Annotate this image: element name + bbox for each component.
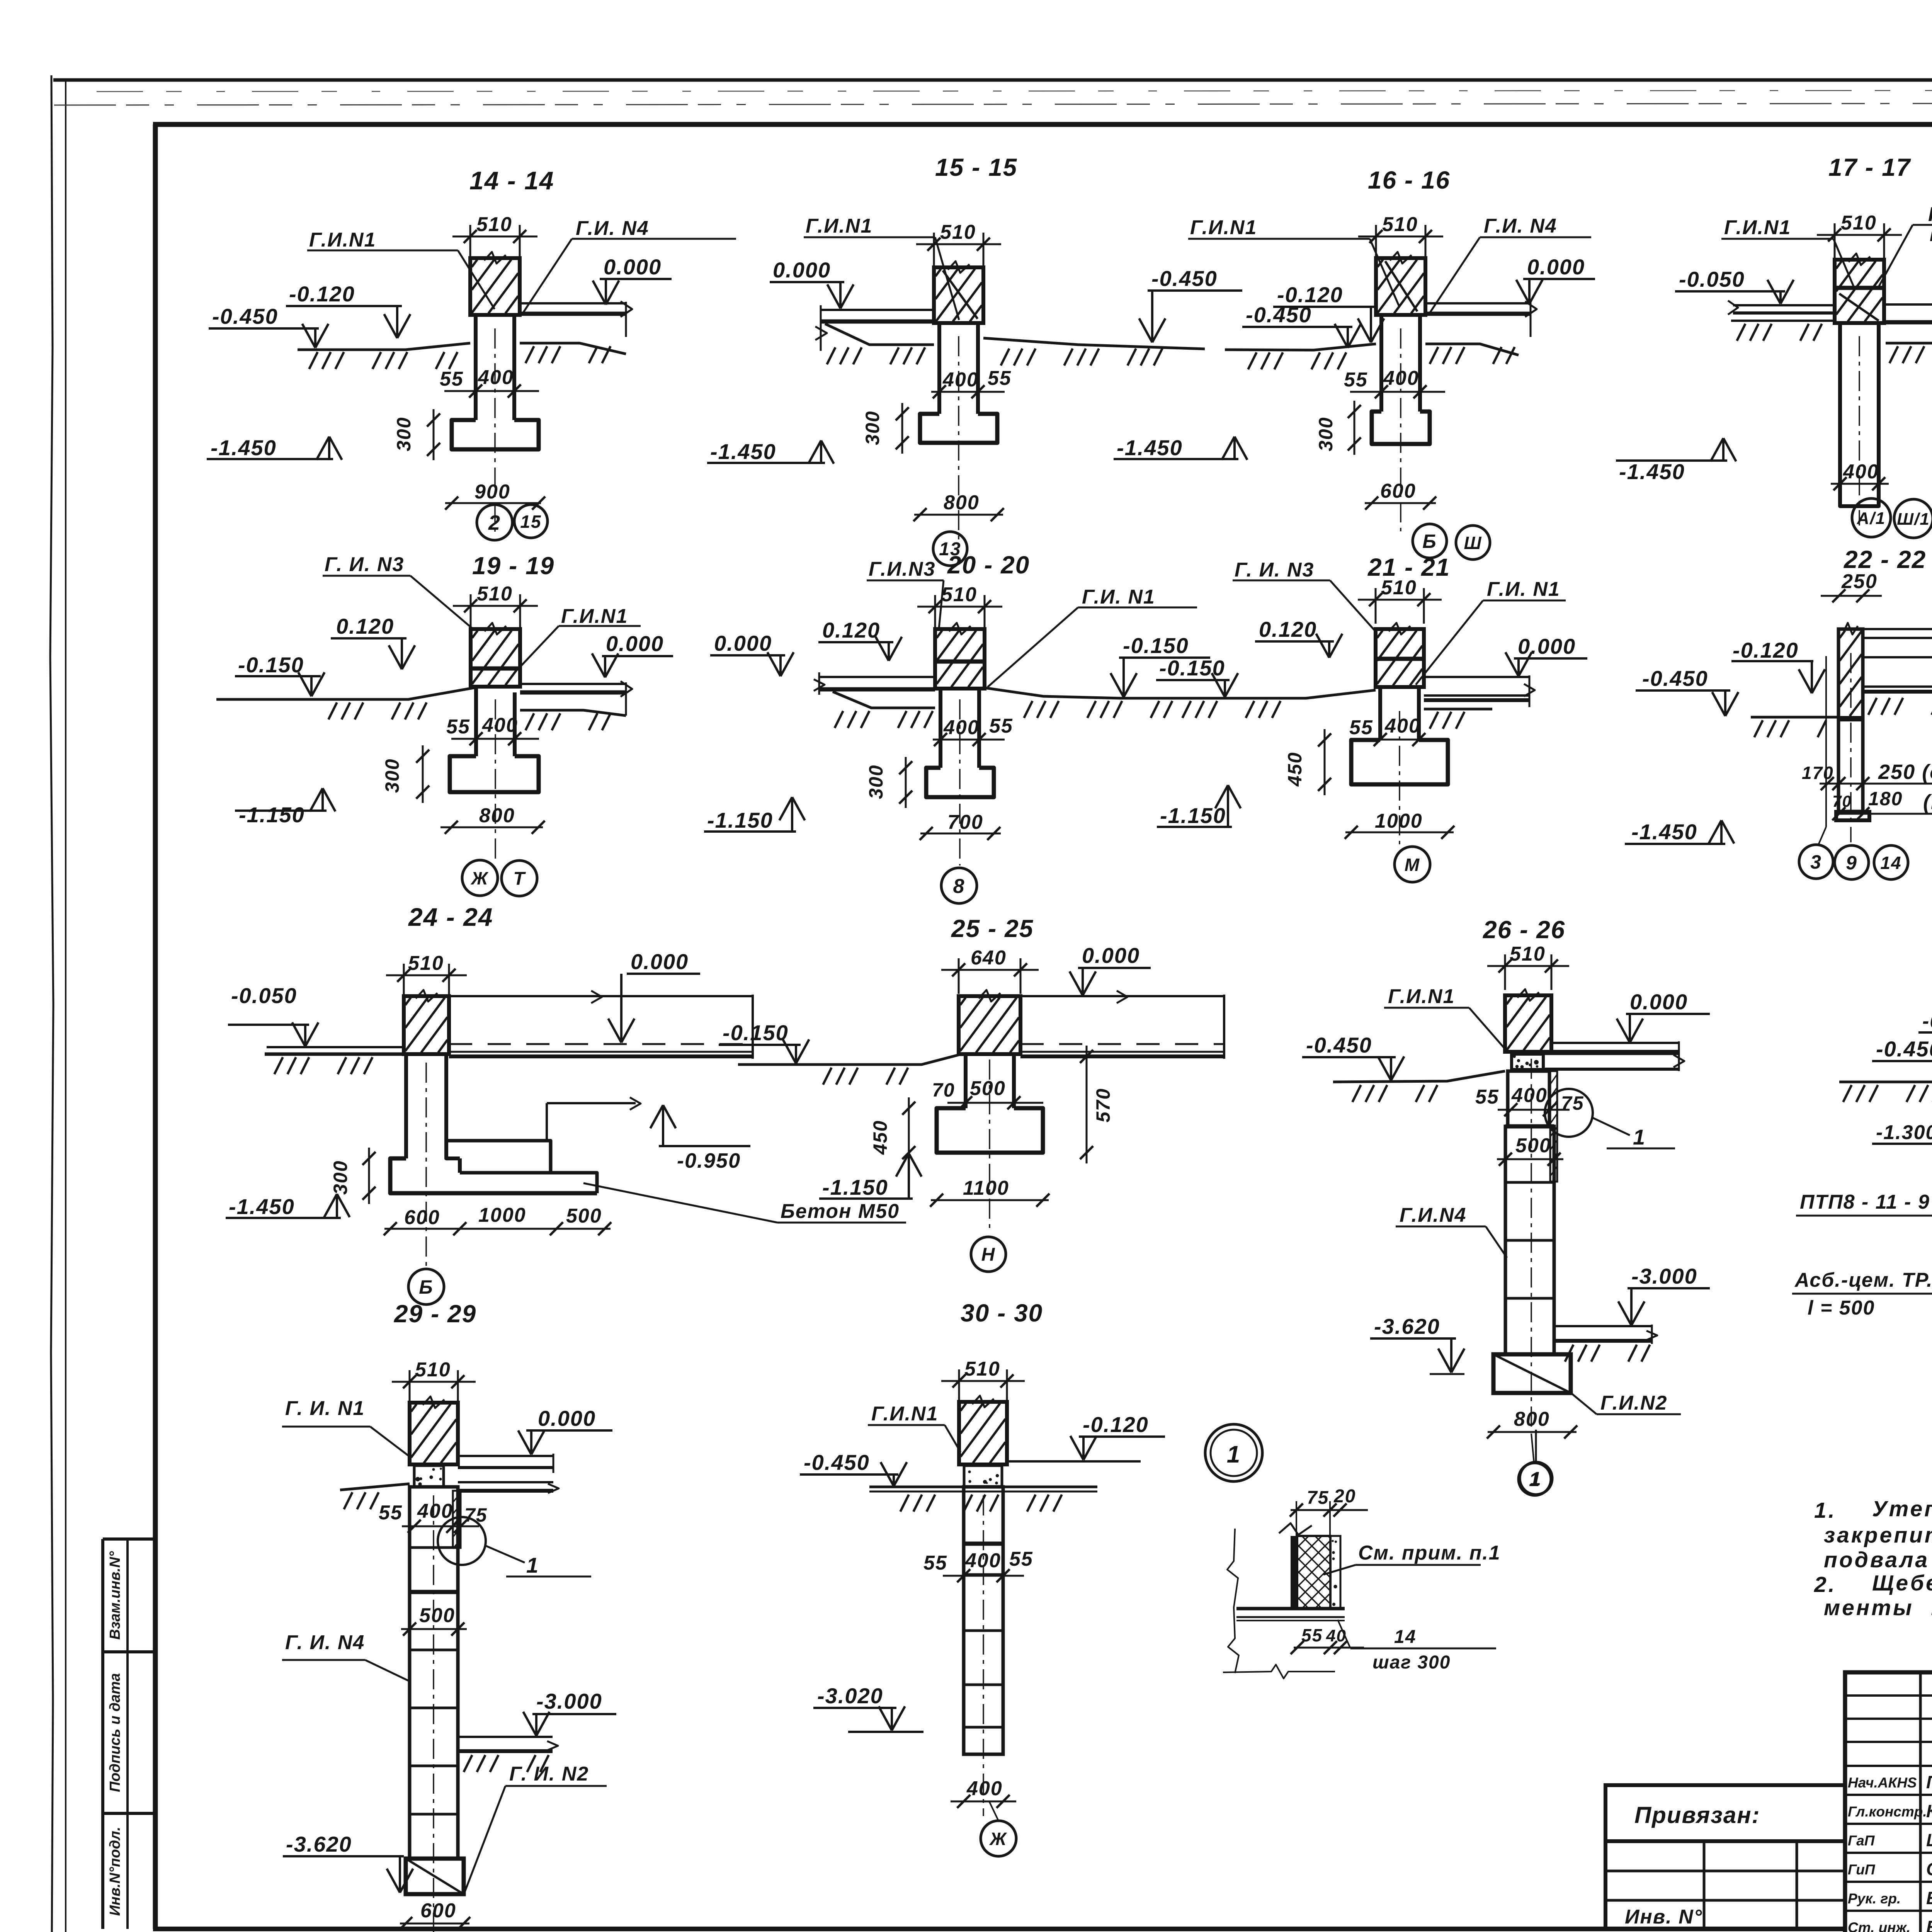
section 19-19 wall (471, 629, 520, 687)
svg-text:500: 500 (566, 1205, 602, 1227)
svg-text:Г. И. N3: Г. И. N3 (1235, 559, 1314, 581)
svg-text:14 - 14: 14 - 14 (469, 166, 554, 195)
svg-text:-0.450: -0.450 (1246, 303, 1312, 327)
section 29-29 concrete band (414, 1466, 444, 1487)
svg-text:9: 9 (1846, 852, 1857, 874)
section 21-21 ground left (1155, 690, 1376, 698)
svg-text:-0.120: -0.120 (289, 282, 355, 306)
svg-text:8: 8 (953, 875, 965, 898)
svg-text:Г.И. N1: Г.И. N1 (1487, 578, 1560, 600)
section 17-17 stem (1840, 323, 1879, 506)
svg-text:400: 400 (478, 366, 514, 389)
svg-text:1.: 1. (1814, 1498, 1837, 1523)
svg-text:-0.150: -0.150 (1159, 656, 1225, 680)
section 16-16 axis circle Sh (1456, 526, 1490, 560)
svg-text:170: 170 (1802, 763, 1834, 783)
svg-text:Н: Н (981, 1245, 996, 1265)
section 26-26 detail callout circle (1545, 1089, 1593, 1137)
svg-text:24 - 24: 24 - 24 (408, 903, 493, 931)
svg-text:Щербина: Щербина (1926, 1830, 1932, 1850)
section 20-20 wall (935, 629, 985, 689)
svg-text:0.120: 0.120 (822, 618, 880, 642)
svg-text:Г.И.N1: Г.И.N1 (309, 229, 376, 251)
svg-text:0.000: 0.000 (714, 631, 772, 655)
svg-text:1: 1 (1227, 1441, 1241, 1468)
svg-text:510: 510 (1382, 213, 1418, 236)
svg-text:75: 75 (1307, 1488, 1329, 1508)
section 16-16 wall (1376, 258, 1425, 315)
section 19-19 ground left (216, 687, 476, 699)
section 25-25 wall (959, 996, 1020, 1054)
svg-text:Гл.констр.: Гл.констр. (1848, 1804, 1927, 1820)
svg-text:510: 510 (477, 583, 513, 605)
section 16-16 floor slab right (1425, 302, 1531, 304)
section 27-27 (1792, 917, 1932, 1502)
section 16-16 center line (1400, 328, 1401, 531)
svg-text:ГиП: ГиП (1848, 1862, 1876, 1878)
section 20-20 trench below floor (833, 692, 935, 708)
svg-text:55: 55 (1475, 1086, 1499, 1108)
svg-text:14: 14 (1880, 853, 1901, 873)
detail 1 floor slab (1236, 1607, 1345, 1611)
svg-text:55: 55 (1301, 1625, 1323, 1645)
svg-text:640: 640 (971, 947, 1007, 969)
svg-text:55: 55 (1344, 369, 1368, 391)
svg-text:20: 20 (1333, 1486, 1356, 1507)
section 24-24 footing (390, 1158, 597, 1193)
detail 1 small circle callout (1535, 1430, 1537, 1462)
svg-text:300: 300 (865, 765, 887, 799)
svg-text:Ш/1: Ш/1 (1897, 510, 1930, 529)
svg-text:400: 400 (966, 1777, 1003, 1800)
svg-text:-0.050: -0.050 (1679, 267, 1745, 291)
svg-text:900: 900 (474, 481, 510, 503)
inner frame left line (153, 124, 158, 1929)
svg-text:Козырев: Козырев (1926, 1801, 1932, 1821)
section 14-14 floor slab right (520, 302, 626, 304)
section 14-14 axis circle 15 (514, 505, 548, 538)
svg-text:1: 1 (1633, 1125, 1646, 1149)
section 25-25 axis circle N (971, 1237, 1006, 1272)
section 21-21 footing (1351, 740, 1448, 784)
section 26-26 (1302, 916, 1710, 1495)
svg-text:Г.И.N1: Г.И.N1 (1724, 216, 1791, 239)
section 14-14 axis circle 2 (477, 505, 512, 540)
section 30-30 axis circle Zh (981, 1821, 1016, 1856)
svg-text:Т: Т (513, 869, 526, 889)
privyazan table (1605, 1785, 1845, 1929)
section 24-24 ground left (265, 1053, 404, 1056)
section 15-15 stem (937, 323, 941, 414)
section 26-26 basement floor right (1554, 1325, 1652, 1327)
section 29-29 (282, 1300, 616, 1932)
section 15-15 center line (958, 336, 959, 545)
svg-text:400: 400 (482, 714, 518, 736)
svg-text:55: 55 (1349, 716, 1373, 739)
svg-text:менты на сечениях условна: менты на сечениях условна не показана. (1824, 1595, 1932, 1620)
svg-text:Г.И.N1: Г.И.N1 (1190, 216, 1257, 239)
svg-text:Пирогов: Пирогов (1926, 1772, 1932, 1792)
section 30-30 (800, 1299, 1165, 1856)
section 14-14 ground line right (520, 343, 626, 354)
svg-text:250: 250 (1841, 570, 1878, 593)
svg-text:510: 510 (476, 213, 512, 236)
svg-text:Г.И. N1: Г.И. N1 (1082, 586, 1155, 608)
sheet outer border left jagged line (50, 75, 53, 1932)
svg-text:300: 300 (381, 759, 403, 793)
section 24-24 wall (404, 996, 449, 1054)
svg-text:22 - 22: 22 - 22 (1844, 546, 1926, 573)
svg-text:шаг 300: шаг 300 (1372, 1652, 1451, 1673)
svg-text:Г.И.N1: Г.И.N1 (806, 215, 872, 237)
svg-text:400: 400 (943, 716, 980, 739)
svg-text:(вариант 1 ): (вариант 1 ) (1923, 791, 1932, 814)
section 25-25 center line (989, 1060, 990, 1233)
svg-text:-1.150: -1.150 (239, 803, 305, 827)
svg-text:0.000: 0.000 (1630, 990, 1688, 1014)
svg-text:75: 75 (1561, 1092, 1584, 1114)
section 16-16 (1114, 166, 1595, 560)
svg-text:1: 1 (526, 1553, 539, 1577)
section 15-15 trench below floor (825, 324, 934, 345)
svg-text:Г. И. N4: Г. И. N4 (285, 1631, 365, 1654)
section 15-15 floor slab left (821, 309, 934, 311)
svg-text:55: 55 (379, 1502, 403, 1524)
section 14-14 stem (474, 315, 478, 420)
section 25-25 ground left (738, 1055, 959, 1065)
section 25-25 (719, 915, 1224, 1272)
svg-text:См. прим. п.1: См. прим. п.1 (1358, 1542, 1501, 1564)
section 26-26 center line (1531, 1059, 1532, 1432)
section 30-30 concrete band (964, 1466, 1002, 1487)
svg-text:400: 400 (1384, 715, 1421, 737)
section 19-19 center line (495, 699, 496, 859)
svg-text:0.000: 0.000 (1518, 634, 1576, 658)
scan noise band 2 (54, 103, 1932, 105)
section 19-19 (216, 552, 673, 896)
svg-text:-3.620: -3.620 (286, 1832, 352, 1856)
section 20-20 floor slab left (819, 676, 935, 678)
svg-text:-1.450: -1.450 (229, 1194, 295, 1219)
section 22-22 center line (1850, 653, 1852, 842)
svg-text:-0.450: -0.450 (1306, 1033, 1372, 1057)
section 20-20 footing (926, 768, 994, 797)
svg-text:-1.150: -1.150 (822, 1175, 888, 1199)
section 30-30 block wall (964, 1487, 1003, 1754)
svg-text:2.: 2. (1814, 1572, 1837, 1597)
section 17-17 axis circle Sh/1 (1894, 499, 1932, 538)
svg-text:1000: 1000 (1375, 810, 1423, 832)
detail 1 left break line (1227, 1529, 1239, 1673)
svg-text:1000: 1000 (478, 1204, 526, 1226)
section 25-25 stem (964, 1054, 968, 1108)
section 20-20 center line (959, 699, 961, 866)
svg-text:2: 2 (488, 511, 501, 534)
section 22-22 (1625, 546, 1932, 879)
section 15-15 (707, 153, 1242, 566)
svg-text:Рук. гр.: Рук. гр. (1848, 1891, 1901, 1906)
svg-text:55: 55 (923, 1552, 947, 1574)
section 29-29 center line (433, 1495, 434, 1932)
section 26-26 floor slab right (1551, 1042, 1679, 1044)
svg-text:800: 800 (944, 492, 980, 514)
svg-text:-0.450: -0.450 (212, 304, 278, 328)
sheet outer border left inner thin line (65, 80, 66, 1932)
svg-text:-0.350: -0.350 (1922, 1010, 1932, 1032)
svg-text:-0.450: -0.450 (1876, 1037, 1932, 1061)
section 21-21 center line (1399, 711, 1400, 844)
svg-text:-0.450: -0.450 (804, 1450, 870, 1475)
svg-text:-3.020: -3.020 (817, 1684, 883, 1708)
section 17-17 floor slab right (1884, 303, 1932, 306)
section 17-17 axis circle A/1 (1852, 498, 1891, 537)
section 14-14 ground line left (298, 343, 470, 350)
svg-text:55: 55 (1009, 1548, 1033, 1570)
section 26-26 concrete band (1512, 1054, 1543, 1070)
svg-text:-0.150: -0.150 (723, 1020, 789, 1045)
svg-text:Ж: Ж (471, 868, 489, 888)
section 21-21 floor slab right (1424, 676, 1529, 678)
svg-text:Г. И. N2: Г. И. N2 (509, 1763, 589, 1785)
svg-text:-3.000: -3.000 (536, 1689, 602, 1713)
section 14-14 (207, 166, 736, 540)
section 16-16 footing (1372, 412, 1430, 444)
svg-text:-0.050: -0.050 (231, 983, 297, 1008)
section 22-22 ground line (1751, 716, 1839, 719)
section 21-21 wall (1376, 629, 1424, 687)
section 30-30 ground line (869, 1486, 1097, 1488)
section 26-26 ground left (1333, 1071, 1505, 1082)
svg-text:-1.150: -1.150 (707, 808, 773, 832)
svg-text:510: 510 (941, 583, 977, 606)
svg-text:ГаП: ГаП (1848, 1833, 1875, 1849)
svg-text:Г.И.N4: Г.И.N4 (1400, 1204, 1466, 1226)
section 24-24 center line (425, 1063, 427, 1267)
svg-text:-0.150: -0.150 (238, 653, 304, 677)
svg-text:600: 600 (404, 1206, 440, 1229)
svg-text:55: 55 (440, 368, 464, 390)
section 21-21 ground right (1424, 708, 1492, 711)
svg-text:600: 600 (1380, 480, 1416, 502)
section 29-29 floor slab right upper (458, 1455, 553, 1457)
section 19-19 floor slab right (520, 683, 626, 685)
section 22-22 axis circle 3 (1799, 845, 1833, 879)
svg-text:-0.120: -0.120 (1083, 1412, 1149, 1437)
section 19-19 ground right (520, 710, 626, 716)
svg-text:М: М (1405, 855, 1420, 875)
svg-text:Г.И. N4: Г.И. N4 (1484, 215, 1557, 237)
detail 1 wall strip (1291, 1536, 1297, 1609)
svg-text:0.000: 0.000 (1527, 255, 1585, 279)
svg-text:Утеплитель ( плиты фибролитовы: Утеплитель ( плиты фибролитовые , ГОСТ 8… (1872, 1497, 1932, 1521)
sheet outer border top line (53, 78, 1932, 82)
section 26-26 insulation strip (1550, 1071, 1557, 1182)
svg-text:Г.И.N1: Г.И.N1 (1388, 985, 1455, 1008)
section 19-19 stem (474, 688, 478, 756)
svg-text:-3.620: -3.620 (1374, 1314, 1440, 1338)
svg-text:1100: 1100 (963, 1177, 1009, 1199)
section 22-22 waterproofing band (1838, 716, 1863, 721)
svg-text:0.000: 0.000 (773, 258, 831, 282)
section 22-22 floor package right (1863, 628, 1932, 630)
svg-text:30 - 30: 30 - 30 (961, 1299, 1043, 1327)
svg-text:Асб.-цем. ТР. d=100: Асб.-цем. ТР. d=100 (1794, 1269, 1932, 1291)
section 17-17 ground right (1886, 342, 1932, 345)
svg-text:55: 55 (989, 715, 1013, 737)
svg-text:Привязан:: Привязан: (1634, 1802, 1760, 1828)
svg-text:Б: Б (419, 1276, 433, 1298)
svg-text:17 - 17: 17 - 17 (1828, 153, 1912, 181)
svg-text:Инв. N°: Инв. N° (1625, 1906, 1702, 1928)
inner frame bottom line (153, 1927, 1845, 1931)
svg-text:70: 70 (1832, 792, 1852, 810)
svg-text:500: 500 (970, 1077, 1006, 1100)
svg-text:Ершова: Ершова (1926, 1888, 1932, 1908)
detail 1 insulation panel (1297, 1536, 1330, 1609)
section 30-30 center line (983, 1495, 984, 1816)
section 24-24 floor line left (267, 1046, 404, 1048)
svg-text:500: 500 (1515, 1134, 1551, 1157)
section 21-21 axis circle M (1395, 847, 1430, 882)
svg-text:Елхова: Елхова (1926, 1917, 1932, 1932)
notes text (1814, 1497, 1932, 1620)
svg-text:Г.И.N1: Г.И.N1 (871, 1403, 938, 1425)
svg-text:Взам.инв.N°: Взам.инв.N° (107, 1551, 123, 1640)
svg-text:Инв.N°подл.: Инв.N°подл. (107, 1827, 123, 1916)
section 26-26 block wall (1508, 1071, 1549, 1126)
section 22-22 wall footing block (1836, 812, 1869, 820)
title block signatures table (1845, 1672, 1932, 1932)
svg-text:510: 510 (1381, 577, 1417, 599)
svg-text:Ж: Ж (989, 1829, 1007, 1849)
svg-text:450: 450 (869, 1120, 891, 1155)
section 24-24 upper basement slab right (547, 1102, 636, 1104)
section 24-24 mass concrete steps (446, 1141, 551, 1173)
svg-text:Г. И. N3: Г. И. N3 (325, 553, 404, 576)
svg-text:-0.120: -0.120 (1733, 638, 1799, 662)
section 21-21 (1155, 553, 1587, 882)
svg-text:-1.450: -1.450 (1631, 820, 1697, 844)
svg-text:Б: Б (1422, 531, 1437, 552)
section 20-20 axis circle 8 (941, 868, 977, 903)
svg-text:510: 510 (940, 221, 976, 243)
section 15-15 ground line right (983, 338, 1205, 349)
svg-text:на отм. 0.190: на отм. 0.190 (1930, 225, 1932, 245)
svg-text:15 - 15: 15 - 15 (935, 153, 1017, 181)
svg-text:300: 300 (330, 1160, 351, 1195)
svg-text:16 - 16: 16 - 16 (1368, 166, 1450, 194)
svg-text:400: 400 (417, 1500, 453, 1522)
svg-text:250 (основное решение): 250 (основное решение) (1878, 760, 1932, 784)
section 20-20 stem (939, 689, 942, 768)
svg-text:Бетон М50: Бетон М50 (781, 1200, 900, 1223)
detail 1 big circle (1205, 1424, 1262, 1481)
section 19-19 footing (450, 756, 539, 792)
section 19-19 axis circle Zh (462, 860, 498, 896)
detail 1 (1205, 1424, 1552, 1679)
svg-text:-1.450: -1.450 (710, 439, 776, 464)
svg-text:-0.450: -0.450 (1151, 266, 1218, 291)
svg-text:подвала в верхней зоне , о: подвала в верхней зоне , оштукатурить. (1824, 1548, 1932, 1572)
scan noise band 1 (97, 90, 1932, 92)
svg-text:19 - 19: 19 - 19 (472, 552, 554, 580)
section 25-25 footing (937, 1108, 1043, 1153)
svg-text:А/1: А/1 (1857, 509, 1886, 528)
section 24-24 elevation -0.950 (659, 1145, 750, 1147)
svg-text:Г. И. N1: Г. И. N1 (285, 1397, 365, 1420)
svg-text:Подпись и дата: Подпись и дата (107, 1673, 123, 1792)
svg-text:510: 510 (964, 1358, 1000, 1380)
section 17-17 wall (1835, 260, 1884, 323)
svg-text:400: 400 (1843, 461, 1879, 483)
svg-text:0.000: 0.000 (606, 631, 664, 656)
section 14-14 footing (452, 420, 539, 449)
svg-text:ПТП8 - 11 - 9: ПТП8 - 11 - 9 (1800, 1191, 1930, 1213)
section 17-17 (1616, 153, 1932, 538)
section 24-24 floor structure right (449, 995, 753, 997)
section 27-27 ground left (1839, 1081, 1932, 1083)
section 26-26 footing (1493, 1354, 1571, 1393)
detail 1 plaster layer (1330, 1536, 1340, 1609)
svg-text:1: 1 (1530, 1468, 1542, 1490)
section 15-15 footing (920, 414, 997, 443)
svg-text:Г.И.N2: Г.И.N2 (1600, 1392, 1667, 1414)
section 24-24 (226, 903, 906, 1304)
svg-text:400: 400 (942, 369, 979, 391)
section 29-29 basement floor right (458, 1736, 553, 1738)
section 17-17 center line (1859, 336, 1860, 526)
svg-text:180: 180 (1868, 788, 1903, 810)
svg-text:55: 55 (446, 716, 470, 738)
section 22-22 leader line circle 3 (1825, 656, 1827, 827)
svg-text:3: 3 (1810, 851, 1822, 873)
svg-text:Стельмашонок: Стельмашонок (1926, 1859, 1932, 1879)
svg-text:Г.И.N1: Г.И.N1 (561, 605, 628, 628)
svg-text:800: 800 (479, 804, 515, 827)
svg-text:0.120: 0.120 (1259, 617, 1317, 641)
svg-text:300: 300 (862, 411, 883, 445)
section 15-15 axis circle 13 (933, 532, 967, 566)
svg-text:закрепить на штырях к нару: закрепить на штырях к наружным стенам (1824, 1523, 1932, 1548)
svg-text:l = 500: l = 500 (1808, 1297, 1875, 1319)
svg-text:-1.300: -1.300 (1876, 1121, 1932, 1144)
section 26-26 wall (1505, 995, 1551, 1052)
svg-text:55: 55 (988, 367, 1012, 389)
svg-text:29 - 29: 29 - 29 (394, 1300, 476, 1328)
svg-text:0.120: 0.120 (336, 614, 394, 638)
section 25-25 floor structure right (1020, 995, 1224, 997)
section 29-29 floor slab right lower (458, 1481, 553, 1483)
svg-text:26 - 26: 26 - 26 (1483, 916, 1565, 944)
section 26-26 axis circle 1 (1519, 1463, 1551, 1495)
section 22-22 basement wall (1838, 629, 1863, 811)
svg-text:-1.450: -1.450 (211, 435, 277, 460)
section 17-17 ground left (1731, 320, 1835, 322)
svg-text:-1.450: -1.450 (1117, 435, 1183, 460)
svg-text:Г.И.N1: Г.И.N1 (1928, 203, 1932, 226)
svg-text:-0.150: -0.150 (1123, 633, 1189, 658)
section 22-22 axis circle 9 (1835, 845, 1869, 879)
svg-text:510: 510 (1841, 212, 1877, 234)
svg-text:Ст. инж.: Ст. инж. (1848, 1920, 1910, 1932)
detail 1 bottom break line (1223, 1665, 1335, 1679)
section 29-29 block wall (410, 1487, 458, 1859)
section 21-21 stem (1378, 689, 1382, 740)
svg-text:Ш: Ш (1464, 533, 1482, 553)
section 29-29 detail callout circle (438, 1517, 486, 1565)
svg-text:600: 600 (420, 1900, 456, 1922)
svg-text:0.000: 0.000 (1082, 943, 1140, 968)
